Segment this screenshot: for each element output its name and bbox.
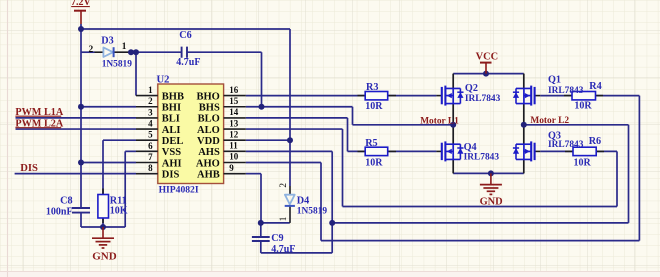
svg-text:DIS: DIS (20, 163, 38, 174)
svg-text:10R: 10R (365, 157, 383, 168)
svg-text:R3: R3 (366, 82, 378, 93)
svg-text:IRL7843: IRL7843 (548, 86, 584, 96)
svg-text:Motor L2: Motor L2 (530, 116, 569, 126)
svg-text:1: 1 (148, 85, 153, 95)
svg-text:BHI: BHI (162, 103, 181, 114)
svg-text:1N5819: 1N5819 (297, 206, 328, 216)
svg-text:10R: 10R (574, 157, 592, 168)
svg-text:10: 10 (229, 152, 239, 162)
svg-text:4.7uF: 4.7uF (271, 244, 295, 255)
svg-text:BHB: BHB (162, 91, 184, 102)
svg-text:ALI: ALI (162, 125, 181, 136)
svg-text:9: 9 (229, 163, 234, 173)
svg-text:DIS: DIS (162, 169, 180, 180)
svg-text:4: 4 (148, 118, 153, 128)
svg-text:Motor L1: Motor L1 (420, 116, 459, 126)
svg-text:10R: 10R (574, 100, 592, 111)
svg-text:IRL7843: IRL7843 (548, 140, 584, 150)
svg-text:BHO: BHO (196, 91, 219, 102)
svg-text:AHS: AHS (198, 147, 220, 158)
svg-text:16: 16 (229, 85, 239, 95)
svg-text:Q4: Q4 (464, 142, 477, 153)
svg-text:C6: C6 (179, 30, 191, 41)
svg-text:IRL7843: IRL7843 (465, 94, 501, 104)
svg-text:VSS: VSS (162, 147, 181, 158)
svg-text:BHS: BHS (199, 103, 220, 114)
svg-text:2: 2 (89, 45, 94, 55)
svg-text:2: 2 (279, 183, 289, 188)
svg-text:2: 2 (148, 96, 153, 106)
svg-text:10R: 10R (365, 101, 383, 112)
svg-text:100nF: 100nF (46, 206, 73, 217)
svg-text:8: 8 (148, 163, 153, 173)
svg-text:1: 1 (279, 216, 289, 221)
svg-text:12: 12 (229, 129, 239, 139)
svg-text:ALO: ALO (197, 125, 220, 136)
svg-text:7: 7 (148, 152, 153, 162)
svg-text:11: 11 (229, 141, 238, 151)
svg-text:5: 5 (148, 130, 153, 140)
svg-text:7.2V: 7.2V (71, 0, 92, 8)
svg-text:HIP4082I: HIP4082I (159, 185, 199, 196)
svg-text:14: 14 (229, 107, 239, 117)
svg-text:GND: GND (92, 250, 117, 262)
svg-text:R5: R5 (365, 138, 377, 149)
svg-text:4.7uF: 4.7uF (176, 57, 200, 68)
svg-text:BLO: BLO (198, 114, 220, 125)
svg-text:U2: U2 (157, 74, 170, 85)
svg-text:Q2: Q2 (465, 83, 478, 94)
svg-text:D3: D3 (101, 35, 113, 46)
svg-text:GND: GND (480, 197, 503, 208)
svg-text:Q1: Q1 (548, 75, 561, 86)
svg-text:AHI: AHI (162, 158, 182, 169)
svg-text:1: 1 (122, 42, 127, 52)
svg-text:R4: R4 (589, 81, 601, 92)
svg-text:1N5819: 1N5819 (102, 59, 133, 69)
svg-text:DEL: DEL (162, 136, 184, 147)
svg-text:10K: 10K (110, 206, 128, 217)
svg-text:R6: R6 (589, 136, 601, 147)
svg-text:3: 3 (148, 107, 153, 117)
svg-text:C9: C9 (271, 233, 283, 244)
svg-text:VCC: VCC (476, 52, 499, 63)
svg-text:AHO: AHO (196, 158, 220, 169)
svg-text:IRL7843: IRL7843 (464, 152, 500, 162)
svg-text:13: 13 (229, 118, 239, 128)
svg-text:15: 15 (229, 96, 239, 106)
svg-text:6: 6 (148, 141, 153, 151)
svg-text:VDD: VDD (197, 136, 220, 147)
svg-text:C8: C8 (60, 195, 72, 206)
svg-text:AHB: AHB (197, 169, 220, 180)
svg-text:D4: D4 (297, 196, 309, 207)
svg-text:BLI: BLI (162, 114, 180, 125)
